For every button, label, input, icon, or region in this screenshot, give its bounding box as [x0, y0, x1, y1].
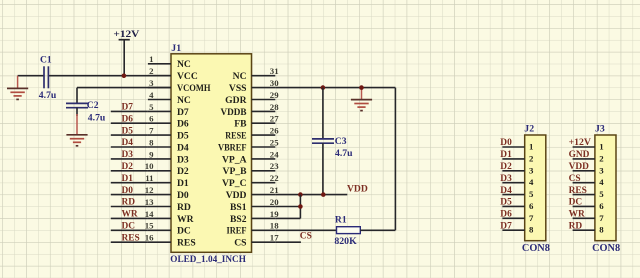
ground GND below C2 — [66, 114, 87, 146]
svg-text:C3: C3 — [335, 136, 347, 147]
svg-text:CS: CS — [569, 174, 581, 184]
pin 14 WR (left) — [145, 209, 195, 225]
wire net D1 stub — [111, 182, 148, 184]
svg-text:VBREF: VBREF — [218, 142, 247, 153]
pin 24 VP_A (right) — [222, 149, 279, 165]
pin 31 NC (right) — [233, 66, 279, 82]
svg-text:+12V: +12V — [569, 138, 592, 148]
wire VDD net horizontal — [275, 194, 347, 196]
pin 26 RESE (right) — [225, 126, 279, 142]
svg-text:WR: WR — [177, 214, 195, 225]
svg-text:D5: D5 — [500, 198, 512, 208]
svg-text:22: 22 — [270, 173, 279, 183]
svg-text:6: 6 — [599, 201, 604, 211]
svg-text:J2: J2 — [524, 124, 534, 135]
wire C2 upper stem — [76, 88, 78, 103]
junction +12V tap on VCC wire — [122, 73, 127, 78]
svg-text:3: 3 — [599, 165, 604, 175]
svg-text:IREF: IREF — [227, 226, 247, 237]
svg-text:6: 6 — [529, 201, 534, 211]
svg-text:VDD: VDD — [347, 183, 368, 194]
svg-text:4: 4 — [599, 177, 604, 187]
svg-text:J3: J3 — [595, 124, 605, 135]
pin 13 RD (left) — [145, 197, 191, 213]
pin 28 VDDB (right) — [221, 102, 280, 118]
svg-text:30: 30 — [270, 78, 279, 88]
svg-text:VDD: VDD — [226, 190, 247, 201]
svg-text:23: 23 — [270, 161, 279, 171]
svg-text:4.7u: 4.7u — [39, 90, 57, 101]
pin 8 of J2 — [502, 225, 534, 235]
pin 3 of J2 — [502, 165, 534, 175]
junction BS1 tap on tie — [298, 204, 303, 209]
svg-text:20: 20 — [270, 197, 279, 207]
svg-text:C2: C2 — [87, 100, 99, 111]
pin 25 VBREF (right) — [218, 137, 279, 153]
svg-text:DC: DC — [122, 222, 136, 232]
svg-text:D6: D6 — [500, 210, 512, 220]
svg-text:17: 17 — [270, 233, 279, 243]
svg-text:D0: D0 — [177, 190, 189, 201]
svg-text:RES: RES — [122, 233, 140, 243]
svg-text:CS: CS — [300, 232, 312, 242]
svg-text:27: 27 — [270, 114, 279, 124]
junction C3 tap on VSS — [321, 85, 326, 90]
svg-text:VP_B: VP_B — [223, 166, 248, 177]
svg-text:CON8: CON8 — [592, 243, 620, 254]
svg-text:21: 21 — [270, 185, 279, 195]
wire VSS net horizontal — [275, 87, 395, 89]
pin 18 IREF (right) — [227, 221, 280, 237]
ground GND on VSS net — [351, 88, 372, 111]
wire net D3 stub — [111, 158, 148, 160]
svg-text:D1: D1 — [122, 174, 134, 184]
svg-text:GDR: GDR — [225, 95, 247, 106]
junction C3 stem on VDD wire — [321, 192, 326, 197]
svg-text:820K: 820K — [334, 236, 357, 247]
svg-text:1: 1 — [149, 54, 153, 64]
svg-text:D4: D4 — [500, 186, 512, 196]
pin 23 VP_B (right) — [223, 161, 280, 177]
svg-text:8: 8 — [149, 137, 154, 147]
connector J2 CON8 — [522, 124, 550, 254]
capacitor C1 — [44, 66, 48, 88]
svg-text:4: 4 — [149, 90, 154, 100]
svg-text:13: 13 — [145, 197, 154, 207]
svg-text:D3: D3 — [500, 174, 512, 184]
wire net D6 stub — [111, 122, 148, 124]
svg-text:DC: DC — [569, 198, 583, 208]
svg-text:D5: D5 — [122, 126, 134, 136]
pin 10 D2 (left) — [145, 161, 189, 177]
pin 4 of J3 — [573, 177, 605, 187]
wire R1 to VSS vertical — [360, 229, 395, 231]
svg-text:2: 2 — [599, 153, 604, 163]
svg-text:5: 5 — [599, 189, 604, 199]
pin 1 of J2 — [502, 142, 533, 152]
svg-text:D2: D2 — [122, 162, 134, 172]
pin 7 D5 (left) — [148, 126, 189, 142]
svg-text:RES: RES — [569, 186, 587, 196]
svg-text:VSS: VSS — [229, 83, 247, 94]
wire BS2 to tie — [275, 217, 300, 219]
pin 2 of J2 — [502, 153, 534, 163]
pin 19 BS2 (right) — [230, 209, 279, 225]
pin 21 VDD (right) — [226, 185, 279, 201]
svg-text:31: 31 — [270, 66, 279, 76]
svg-text:26: 26 — [270, 126, 279, 136]
IC J1 (OLED_1.04_INCH) body — [171, 54, 252, 253]
wire net D4 stub — [111, 146, 148, 148]
wire IREF net to R1 — [275, 229, 336, 231]
svg-text:RESE: RESE — [225, 131, 246, 142]
resistor R1 — [337, 227, 361, 234]
svg-text:5: 5 — [149, 102, 154, 112]
svg-text:DC: DC — [177, 226, 191, 237]
svg-text:4.7u: 4.7u — [88, 112, 106, 123]
wire net RD stub — [111, 206, 148, 208]
pin 2 VCC (left) — [148, 66, 198, 82]
svg-text:NC: NC — [233, 71, 247, 82]
svg-text:2: 2 — [529, 153, 534, 163]
svg-text:+12V: +12V — [113, 30, 139, 40]
power +12V — [113, 30, 139, 75]
svg-text:D3: D3 — [177, 154, 189, 165]
svg-text:RD: RD — [569, 221, 583, 231]
pin 22 VP_C (right) — [222, 173, 279, 189]
wire VCC net left segment — [18, 75, 44, 77]
wire net D2 stub — [111, 170, 148, 172]
svg-text:R1: R1 — [335, 214, 347, 225]
svg-text:11: 11 — [145, 173, 153, 183]
ground GND left — [7, 76, 28, 100]
svg-text:5: 5 — [529, 189, 534, 199]
svg-text:BS1: BS1 — [230, 202, 247, 213]
svg-text:19: 19 — [270, 209, 279, 219]
capacitor C2 — [66, 103, 88, 107]
svg-text:WR: WR — [569, 210, 585, 220]
svg-text:D4: D4 — [122, 138, 134, 148]
svg-text:24: 24 — [270, 149, 279, 159]
svg-text:NC: NC — [177, 95, 191, 106]
svg-text:GND: GND — [569, 150, 590, 160]
svg-text:4.7u: 4.7u — [335, 148, 353, 159]
svg-text:VCOMH: VCOMH — [177, 83, 211, 94]
svg-text:BS2: BS2 — [230, 214, 247, 225]
svg-text:CS: CS — [234, 238, 246, 249]
svg-text:D1: D1 — [177, 178, 189, 189]
svg-text:CON8: CON8 — [522, 243, 550, 254]
svg-text:RD: RD — [122, 198, 136, 208]
svg-text:VP_A: VP_A — [222, 154, 247, 165]
pin 12 D0 (left) — [145, 185, 189, 201]
wire net D0 stub — [111, 194, 148, 196]
wire net D5 stub — [111, 134, 148, 136]
svg-text:OLED_1.04_INCH: OLED_1.04_INCH — [170, 254, 246, 265]
pin 5 of J2 — [502, 189, 534, 199]
svg-text:7: 7 — [149, 126, 154, 136]
wire C2 lower stem — [76, 108, 78, 116]
svg-text:4: 4 — [529, 177, 534, 187]
svg-text:RES: RES — [177, 238, 196, 249]
svg-text:18: 18 — [270, 221, 279, 231]
svg-text:VCC: VCC — [177, 71, 198, 82]
wire C3 upper stem — [322, 88, 324, 139]
pin 9 D3 (left) — [148, 149, 189, 165]
wire C3 lower stem — [322, 143, 324, 194]
pin 27 FB (right) — [234, 114, 279, 130]
pin 6 of J3 — [573, 201, 605, 211]
svg-text:D6: D6 — [122, 115, 134, 125]
svg-text:28: 28 — [270, 102, 279, 112]
pin 1 of J3 — [573, 142, 604, 152]
wire VCOMH net to pin 3 — [77, 87, 171, 89]
pin 7 of J3 — [573, 213, 605, 223]
svg-text:D0: D0 — [500, 138, 512, 148]
wire net RES stub — [111, 241, 148, 243]
svg-text:1: 1 — [599, 142, 603, 152]
connector J3 CON8 — [592, 124, 620, 254]
svg-text:8: 8 — [599, 225, 604, 235]
svg-text:1: 1 — [529, 142, 533, 152]
svg-text:D2: D2 — [500, 162, 512, 172]
svg-text:J1: J1 — [171, 43, 181, 54]
svg-text:C1: C1 — [40, 55, 52, 66]
pin 1 NC (left) — [148, 54, 191, 70]
svg-text:D6: D6 — [177, 119, 189, 130]
pin 29 GDR (right) — [225, 90, 279, 106]
pin 17 CS (right) — [234, 233, 279, 249]
wire net D7 stub — [111, 110, 148, 112]
svg-text:D0: D0 — [122, 186, 134, 196]
pin 11 D1 (left) — [145, 173, 189, 189]
svg-text:NC: NC — [177, 59, 191, 70]
pin 4 NC (left) — [148, 90, 191, 106]
svg-text:7: 7 — [529, 213, 534, 223]
svg-text:VDDB: VDDB — [221, 107, 248, 118]
svg-text:6: 6 — [149, 114, 154, 124]
svg-text:15: 15 — [145, 221, 154, 231]
svg-text:D2: D2 — [177, 166, 189, 177]
svg-text:D5: D5 — [177, 131, 189, 142]
pin 15 DC (left) — [145, 221, 191, 237]
pin 4 of J2 — [502, 177, 534, 187]
pin 3 VCOMH (left) — [148, 78, 211, 94]
svg-text:D7: D7 — [500, 221, 512, 231]
wire net WR stub — [111, 217, 148, 219]
capacitor C3 — [312, 139, 334, 143]
wire VSS net vertical right — [394, 88, 396, 231]
pin 6 of J2 — [502, 201, 534, 211]
svg-text:VDD: VDD — [569, 162, 590, 172]
pin 5 D7 (left) — [148, 102, 189, 118]
svg-text:12: 12 — [145, 185, 154, 195]
pin 16 RES (left) — [145, 233, 196, 249]
svg-text:29: 29 — [270, 90, 279, 100]
svg-text:2: 2 — [149, 66, 154, 76]
pin 3 of J3 — [573, 165, 605, 175]
svg-text:16: 16 — [145, 233, 154, 243]
pin 8 of J3 — [573, 225, 605, 235]
svg-text:WR: WR — [122, 210, 138, 220]
svg-text:FB: FB — [234, 119, 247, 130]
svg-text:D4: D4 — [177, 142, 189, 153]
svg-text:25: 25 — [270, 137, 279, 147]
wire BS1/BS2 tie vertical — [299, 195, 301, 219]
svg-text:D7: D7 — [177, 107, 189, 118]
pin 30 VSS (right) — [229, 78, 279, 94]
svg-text:9: 9 — [149, 149, 154, 159]
svg-text:3: 3 — [529, 165, 534, 175]
svg-text:D3: D3 — [122, 150, 134, 160]
junction BS tie on VDD wire — [298, 192, 303, 197]
svg-text:D7: D7 — [122, 103, 134, 113]
wire net DC stub — [111, 229, 148, 231]
svg-text:14: 14 — [145, 209, 154, 219]
pin 5 of J3 — [573, 189, 605, 199]
svg-text:8: 8 — [529, 225, 534, 235]
pin 8 D4 (left) — [148, 137, 189, 153]
wire CS net stub — [275, 241, 301, 243]
svg-text:3: 3 — [149, 78, 154, 88]
wire VCC net right segment to pin 2 — [48, 75, 171, 77]
pin 2 of J3 — [573, 153, 605, 163]
svg-text:D1: D1 — [500, 150, 512, 160]
svg-text:RD: RD — [177, 202, 191, 213]
svg-text:10: 10 — [145, 161, 154, 171]
pin 7 of J2 — [502, 213, 534, 223]
svg-text:VP_C: VP_C — [222, 178, 247, 189]
pin 6 D6 (left) — [148, 114, 189, 130]
junction ground tap on VSS — [359, 85, 364, 90]
pin 20 BS1 (right) — [230, 197, 279, 213]
svg-text:7: 7 — [599, 213, 604, 223]
wire BS1 to tie — [275, 206, 300, 208]
